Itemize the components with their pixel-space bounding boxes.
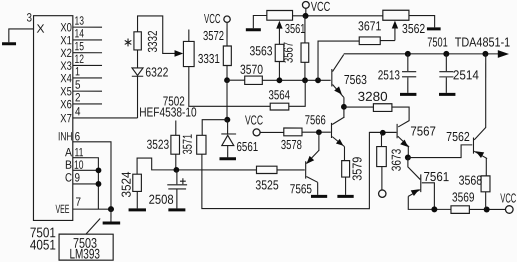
- svg-text:3579: 3579: [349, 157, 364, 181]
- open terminal (3673): [379, 190, 386, 197]
- IC U7501 4051 box: [33, 16, 72, 221]
- wire diode to X7 line: [137, 76, 139, 118]
- wire 3525 to 7565 base: [277, 169, 305, 171]
- resistor 3568: [481, 176, 490, 192]
- junction bus 2514: [443, 51, 449, 57]
- diode 6561: [221, 134, 236, 146]
- svg-text:LM393: LM393: [69, 246, 100, 262]
- wire 3572 bottom: [226, 65, 228, 80]
- svg-text:3332: 3332: [145, 30, 160, 52]
- resistor 3673: [377, 147, 387, 167]
- resistor 3563: [275, 44, 284, 61]
- junction 3568 bottom: [484, 206, 490, 212]
- svg-text:7561: 7561: [423, 169, 449, 184]
- junction bus 2513: [405, 51, 411, 57]
- svg-text:X4: X4: [60, 71, 72, 85]
- top rail 3561 to 3562: [293, 15, 383, 17]
- svg-text:2: 2: [75, 90, 81, 104]
- junction 3567: [302, 77, 308, 83]
- resistor 3524: [133, 174, 142, 191]
- ground (3579): [337, 195, 353, 198]
- ground (2513): [400, 93, 416, 96]
- wire 3332 bottom to diode: [137, 50, 139, 68]
- VCC terminal (bottom): [505, 206, 513, 214]
- wire 3571 bottom to bottom rail: [202, 132, 396, 208]
- callout line 7503 to VEE node: [86, 219, 100, 235]
- resistor 3578: [284, 128, 302, 136]
- wire X1 stub: [73, 39, 102, 41]
- wire 3331 bottom to 3564 line: [189, 67, 270, 107]
- resistor 3572: [223, 46, 231, 66]
- junction A-B: [96, 167, 102, 173]
- wire 3671 right to 3562 wiper: [380, 40, 395, 42]
- svg-text:C: C: [65, 171, 72, 185]
- ground (2514): [439, 93, 455, 96]
- VCC terminal (3572): [224, 16, 230, 22]
- comparator box 7503 LM393: [59, 234, 113, 261]
- resistor 3569: [451, 206, 469, 214]
- wire wiper to 3563: [278, 27, 280, 45]
- svg-text:1: 1: [75, 64, 80, 78]
- svg-text:9: 9: [74, 171, 80, 185]
- wiper arrow into 3331: [175, 50, 184, 57]
- svg-text:VCC: VCC: [245, 112, 263, 127]
- wire 7562 collector to bus: [485, 54, 487, 128]
- resistor 3579: [342, 161, 350, 177]
- wire 7567 emitter to N1: [407, 146, 409, 158]
- svg-text:6561: 6561: [236, 139, 258, 154]
- resistor 3564: [270, 103, 289, 110]
- resistor 3671: [359, 37, 380, 45]
- junction N1: [405, 155, 411, 161]
- junction VEE: [108, 206, 114, 212]
- svg-text:VCC: VCC: [311, 0, 331, 14]
- svg-text:3570: 3570: [240, 62, 263, 77]
- wiper arrow 3561: [276, 21, 282, 29]
- wire C stub: [73, 183, 99, 185]
- ground (3561): [246, 28, 261, 31]
- svg-text:2514: 2514: [453, 67, 479, 82]
- wire down to 6561 node: [226, 80, 228, 120]
- svg-text:3568: 3568: [459, 173, 483, 188]
- junction VCC rail: [303, 13, 309, 19]
- resistor 3567: [301, 43, 309, 62]
- wire 3523 bottom: [175, 154, 177, 170]
- wire 3523 top stub: [175, 120, 177, 135]
- svg-text:X6: X6: [60, 97, 72, 111]
- junction 3673 top: [380, 130, 386, 136]
- svg-text:3673: 3673: [389, 149, 404, 172]
- wire 3578 to 7566 base: [302, 131, 331, 133]
- wire 3673 top: [380, 133, 382, 147]
- wire VEE ground stub: [110, 209, 112, 221]
- wire 3570 left: [227, 79, 245, 81]
- resistor 3525: [256, 166, 277, 173]
- svg-text:3280: 3280: [358, 89, 388, 104]
- svg-text:4: 4: [75, 104, 81, 118]
- wire 3563 bottom: [278, 62, 280, 81]
- capacitor 2514: [439, 54, 453, 93]
- svg-text:3569: 3569: [452, 189, 475, 204]
- transistor 7563: [332, 55, 344, 98]
- svg-text:3564: 3564: [269, 87, 291, 102]
- wiper arrow 3562: [392, 21, 398, 29]
- wire VCC to rail: [305, 8, 307, 15]
- base rail 3570 to 7563: [262, 79, 330, 81]
- svg-text:3578: 3578: [281, 137, 302, 152]
- capacitor 2513: [402, 54, 416, 93]
- svg-text:7565: 7565: [290, 181, 312, 196]
- svg-text:7562: 7562: [446, 129, 470, 144]
- main bus TDA4851: [344, 53, 499, 55]
- junction bus 7562: [482, 51, 488, 57]
- svg-text:7567: 7567: [410, 124, 436, 139]
- svg-text:7: 7: [75, 195, 81, 209]
- transistor 7565: [306, 150, 319, 182]
- svg-text:4051: 4051: [30, 237, 56, 253]
- wire X7 to diode 6322: [73, 117, 138, 119]
- resistor 3332: [134, 32, 141, 50]
- wire X5 stub: [73, 90, 102, 92]
- resistor 3280: [373, 104, 392, 112]
- junction 3563: [277, 77, 283, 83]
- svg-text:3562: 3562: [402, 21, 425, 36]
- wire 3567 top: [304, 16, 306, 43]
- transistor 7567: [397, 124, 409, 147]
- wire X0 stub: [73, 26, 102, 28]
- svg-text:X: X: [37, 22, 45, 36]
- wire VCC to 3578: [260, 131, 284, 133]
- ground (6561): [219, 157, 236, 160]
- svg-text:INH: INH: [58, 129, 73, 143]
- junction 7565 emitter node: [316, 129, 322, 135]
- transistor 7566: [331, 118, 344, 147]
- ground (7565): [311, 195, 327, 198]
- svg-text:3563: 3563: [250, 43, 273, 58]
- wire 3564 right up to base rail: [289, 80, 305, 106]
- wire INH stub down to VEE rail: [73, 142, 111, 209]
- svg-text:3: 3: [27, 11, 33, 25]
- wire X6 stub: [73, 103, 102, 105]
- wire 7562 emitter to 3568: [485, 158, 487, 176]
- wire 3568 bottom: [485, 192, 487, 210]
- ground (pin 3): [2, 42, 16, 45]
- wire VCC to 3572: [226, 22, 228, 46]
- svg-text:3523: 3523: [147, 137, 170, 152]
- wire 3561 left to ground: [253, 15, 267, 28]
- svg-text:3572: 3572: [203, 28, 224, 43]
- wire A stub down through B,C: [73, 158, 99, 209]
- wire pin3 to ground: [9, 29, 34, 42]
- svg-text:3567: 3567: [281, 42, 296, 63]
- wire 6561 node to 3571 top corner: [202, 120, 227, 136]
- wire 3673 bottom to open terminal: [381, 167, 383, 191]
- potentiometer 3331: [183, 41, 194, 66]
- wire 3569 to VCC: [469, 208, 505, 210]
- transistor 7561: [408, 158, 421, 197]
- wire 7566 emitter to 3579: [343, 147, 345, 161]
- svg-text:VEE: VEE: [55, 202, 69, 216]
- wire 3280 left: [344, 106, 374, 108]
- wire wiper 3562: [394, 26, 396, 40]
- wire VEE stub: [73, 208, 114, 210]
- transistor 7562: [473, 127, 487, 158]
- ground (VEE): [103, 221, 121, 224]
- junction 6561 node: [224, 117, 230, 123]
- svg-text:3331: 3331: [198, 51, 220, 66]
- wire B stub: [73, 169, 99, 171]
- potentiometer 3561: [267, 11, 293, 21]
- wire X2 stub: [73, 52, 102, 54]
- star mark for 3332: [125, 39, 132, 47]
- junction 2508/3523: [173, 167, 179, 173]
- junction 7563 emitter: [341, 104, 347, 110]
- junction A-C: [96, 181, 102, 187]
- wire 3280 right to 7567 collector: [392, 107, 409, 127]
- wire 6561 cathode lead: [227, 120, 229, 134]
- svg-text:VCC: VCC: [204, 11, 221, 26]
- wire 7563 emitter column: [343, 97, 345, 118]
- wire 7561 base right-down: [422, 183, 435, 210]
- svg-text:X7: X7: [60, 111, 72, 125]
- svg-text:3525: 3525: [255, 177, 278, 192]
- wire 7565 emitter up: [318, 132, 320, 151]
- wire 3671 left down to base rail: [318, 41, 359, 80]
- junction 7561 base rail: [431, 206, 437, 212]
- wire 3331 open top stub: [188, 29, 190, 41]
- wire 6561 to ground: [227, 146, 229, 158]
- ground (3562): [427, 27, 441, 30]
- wire 7561 emitter down: [408, 196, 451, 209]
- svg-text:VCC: VCC: [500, 190, 516, 205]
- junction 3671: [315, 77, 321, 83]
- svg-text:7501: 7501: [427, 34, 448, 49]
- svg-text:3671: 3671: [358, 18, 381, 33]
- wire 3567 bottom: [304, 62, 306, 80]
- VCC terminal (top): [302, 2, 309, 9]
- svg-text:7566: 7566: [305, 112, 326, 127]
- svg-text:6322: 6322: [145, 64, 168, 79]
- svg-text:7563: 7563: [344, 72, 367, 87]
- junction 3572/3570: [224, 77, 230, 83]
- bus arrow: [498, 50, 509, 58]
- svg-text:TDA4851-1: TDA4851-1: [455, 34, 511, 49]
- svg-text:2508: 2508: [149, 192, 174, 207]
- resistor 3523: [171, 135, 180, 154]
- plus mark 2508: [180, 178, 186, 184]
- ground (2508): [168, 208, 185, 211]
- resistor 3570: [245, 76, 263, 84]
- wire 3524 to ground: [136, 191, 138, 208]
- svg-text:3571: 3571: [180, 134, 195, 155]
- capacitor 2508: [167, 170, 187, 209]
- wire 3332 top to 3331 wiper: [138, 16, 176, 54]
- svg-text:3524: 3524: [119, 171, 134, 197]
- wire 7567 base from rail: [369, 131, 396, 133]
- potentiometer 3562: [383, 10, 409, 20]
- svg-text:3561: 3561: [285, 21, 306, 36]
- wire N1 to 7562 base corner: [408, 145, 472, 158]
- wire 3562 right to ground: [409, 16, 435, 28]
- wire X3 stub: [73, 64, 102, 66]
- ground (3524): [129, 208, 146, 211]
- svg-text:2513: 2513: [378, 67, 400, 82]
- wire 7565 collector to ground: [317, 182, 319, 195]
- diode 6322: [132, 68, 143, 76]
- svg-text:HEF4538-10: HEF4538-10: [139, 104, 197, 119]
- resistor 3571: [197, 135, 206, 154]
- wire 3579 to ground: [345, 177, 347, 195]
- VCC terminal (3578): [253, 129, 260, 136]
- 170 rail: 3524 jog to 7565 base: [137, 158, 256, 174]
- wire X4 stub: [73, 77, 102, 79]
